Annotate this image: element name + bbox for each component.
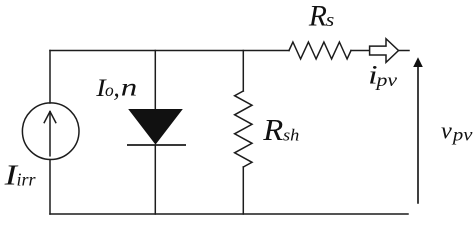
svg-text:pv: pv — [374, 70, 398, 90]
current source Iirr circle — [22, 103, 79, 160]
wire Rs output lead — [351, 50, 370, 52]
svg-text:,: , — [113, 73, 119, 102]
svg-text:s: s — [326, 11, 335, 31]
resistor Rsh zigzag — [235, 91, 252, 167]
wire diode branch bottom — [154, 145, 156, 214]
svg-text:sh: sh — [283, 126, 299, 145]
resistor Rs zigzag — [289, 42, 351, 59]
diode D (Io,n) triangle — [129, 110, 182, 144]
wire left branch bottom (source to bottom rail) — [49, 160, 51, 214]
wire top rail (node between source, diode, Rsh, Rs) — [50, 50, 289, 52]
svg-text:v: v — [441, 117, 452, 144]
wire diode branch top — [154, 51, 156, 110]
diode D cathode bar — [127, 144, 186, 146]
wire left branch top (source to top rail) — [49, 51, 51, 104]
svg-text:R: R — [308, 0, 327, 32]
voltage arrow vpv head — [413, 57, 423, 67]
svg-text:pv: pv — [451, 125, 474, 145]
svg-text:n: n — [121, 74, 138, 102]
output current hollow arrow ipv — [370, 39, 399, 63]
wire Rsh branch bottom lead — [242, 167, 244, 214]
svg-text:R: R — [262, 112, 283, 147]
wire after ipv arrow tip — [399, 50, 410, 52]
current source Iirr internal arrow — [49, 113, 51, 156]
svg-text:irr: irr — [17, 169, 37, 189]
wire bottom rail (return node) — [50, 213, 408, 215]
wire Rsh branch top lead — [242, 51, 244, 92]
voltage arrow vpv line — [417, 65, 419, 204]
